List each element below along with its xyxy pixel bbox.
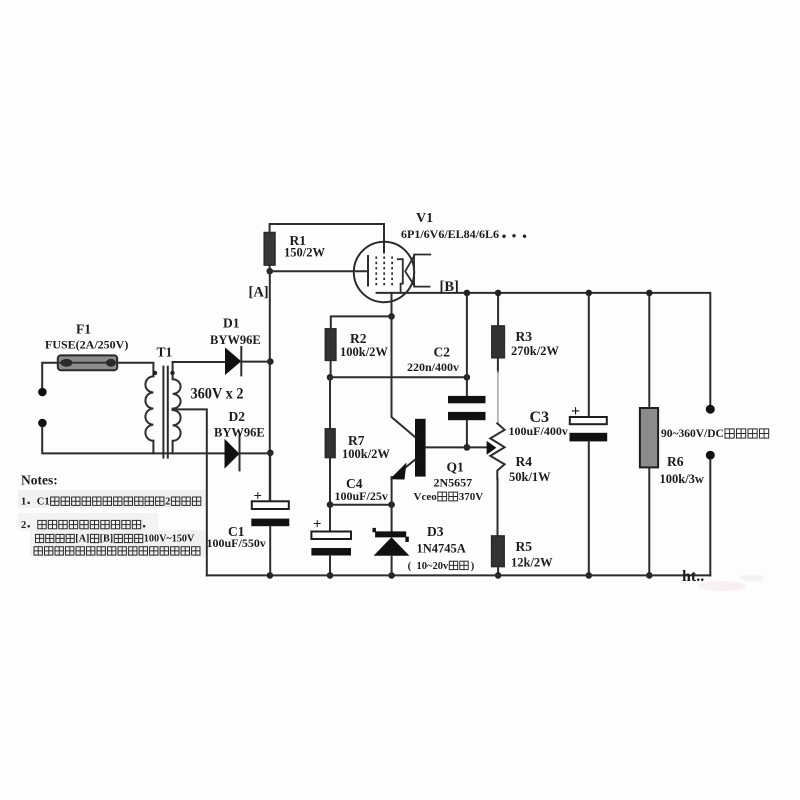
svg-text:10~20v: 10~20v bbox=[417, 561, 449, 572]
svg-text:R5: R5 bbox=[516, 539, 533, 554]
svg-text:100k/3w: 100k/3w bbox=[660, 472, 704, 486]
svg-text:50k/1W: 50k/1W bbox=[509, 470, 551, 484]
resistor R6 bbox=[648, 293, 650, 408]
wire grid lead to tube bbox=[270, 270, 368, 272]
wire top anode loop bbox=[270, 224, 384, 253]
fuse F1 bbox=[58, 355, 117, 370]
zener D3 bbox=[391, 505, 393, 532]
svg-text:[A]: [A] bbox=[249, 284, 269, 300]
tube cathode bar bbox=[367, 256, 369, 286]
node C4 bottom bbox=[327, 572, 334, 579]
svg-text:100uF/25v: 100uF/25v bbox=[335, 489, 388, 503]
svg-text:1N4745A: 1N4745A bbox=[417, 541, 466, 555]
wire R4 to R5 bbox=[497, 479, 499, 536]
node C4 top bbox=[327, 501, 334, 508]
svg-text:90~360V/DC: 90~360V/DC bbox=[661, 428, 724, 440]
diode D1 bbox=[177, 361, 225, 363]
svg-text:[A]: [A] bbox=[75, 534, 89, 545]
svg-text:+: + bbox=[313, 517, 322, 533]
svg-text:R6: R6 bbox=[667, 454, 684, 469]
transformer T1 primary winding bbox=[145, 376, 153, 440]
node R3 top bbox=[495, 290, 502, 297]
svg-text:150/2W: 150/2W bbox=[284, 245, 325, 259]
svg-text:BYW96E: BYW96E bbox=[214, 425, 265, 439]
phasing dot primary bbox=[153, 371, 157, 375]
wire emitter row bbox=[330, 504, 392, 506]
node C3 bottom bbox=[586, 572, 593, 579]
svg-text:2N5657: 2N5657 bbox=[434, 475, 473, 489]
svg-text:12k/2W: 12k/2W bbox=[511, 555, 553, 569]
svg-text:270k/2W: 270k/2W bbox=[511, 344, 559, 358]
svg-text:100V~150V: 100V~150V bbox=[144, 534, 195, 545]
svg-text:[B]: [B] bbox=[100, 534, 114, 545]
node C3 top bbox=[586, 290, 593, 297]
phasing dot secondary bbox=[170, 371, 174, 375]
svg-text:100uF/550v: 100uF/550v bbox=[207, 536, 266, 550]
wire branch to C2 bbox=[330, 376, 467, 378]
node emitter junction bbox=[388, 501, 395, 508]
svg-text:(: ( bbox=[408, 561, 412, 572]
svg-text:370V: 370V bbox=[459, 491, 484, 503]
diode D2 bbox=[173, 452, 225, 454]
capacitor C3 bbox=[588, 293, 590, 417]
svg-text:D1: D1 bbox=[223, 316, 240, 331]
label V1 ellipsis dots bbox=[502, 235, 505, 238]
svg-text:Notes:: Notes: bbox=[21, 472, 58, 487]
wire R2 top bbox=[331, 316, 392, 328]
wire cathode drop from tube bbox=[391, 293, 393, 317]
node R5 bottom bbox=[495, 572, 502, 579]
svg-text:C2: C2 bbox=[434, 345, 451, 360]
svg-text:[B]: [B] bbox=[440, 279, 459, 295]
wire secondary top to D1 bbox=[173, 361, 177, 363]
wire Q1 base lead bbox=[426, 446, 487, 448]
node at R1 bottom bbox=[267, 268, 274, 275]
svg-text:2: 2 bbox=[165, 497, 170, 508]
svg-text:220n/400v: 220n/400v bbox=[407, 360, 459, 374]
wire AC lower to bottom bbox=[42, 427, 172, 453]
svg-text:Q1: Q1 bbox=[447, 459, 465, 474]
svg-text:D3: D3 bbox=[427, 524, 444, 539]
resistor R5 bbox=[492, 536, 505, 567]
node R6 top bbox=[646, 290, 653, 297]
tube V1 envelope bbox=[354, 242, 414, 302]
node tube cathode junction bbox=[388, 313, 395, 320]
svg-text:R4: R4 bbox=[516, 454, 533, 469]
wire [B] rail bbox=[377, 293, 711, 405]
svg-text:T1: T1 bbox=[157, 345, 173, 360]
svg-text:C1: C1 bbox=[37, 497, 50, 508]
wire bottom rail bbox=[207, 574, 711, 576]
tube right bracket and chevron bbox=[414, 255, 430, 287]
wire [A] rail bbox=[269, 271, 271, 501]
svg-text:R7: R7 bbox=[348, 433, 365, 448]
transistor Q1 bbox=[415, 419, 426, 477]
svg-text:ht..: ht.. bbox=[682, 568, 704, 585]
transformer secondary winding lower bbox=[173, 410, 181, 453]
svg-text:100uF/400v: 100uF/400v bbox=[509, 424, 568, 438]
output terminal lower bbox=[706, 451, 715, 460]
node R2 bottom bbox=[327, 374, 334, 381]
svg-text:+: + bbox=[254, 489, 263, 505]
node R6 bottom bbox=[646, 572, 653, 579]
terminal AC upper bbox=[38, 388, 47, 397]
node D2 cathode junction bbox=[267, 450, 274, 457]
node D3 bottom bbox=[388, 572, 395, 579]
svg-text:1: 1 bbox=[21, 497, 26, 508]
capacitor C2 bbox=[466, 293, 468, 396]
resistor R7 bbox=[325, 429, 335, 458]
node on C2 lead bbox=[464, 374, 471, 381]
svg-text:100k/2W: 100k/2W bbox=[342, 447, 390, 461]
capacitor C1 bbox=[269, 453, 271, 502]
potentiometer R4 zigzag bbox=[490, 423, 504, 478]
transformer secondary winding upper bbox=[173, 362, 181, 409]
svg-text:V1: V1 bbox=[416, 211, 433, 226]
svg-text:D2: D2 bbox=[229, 409, 246, 424]
wire fuse left bbox=[42, 363, 58, 388]
svg-text:FUSE(2A/250V): FUSE(2A/250V) bbox=[45, 337, 128, 351]
node D1 cathode junction bbox=[267, 358, 274, 365]
resistor R2 bbox=[325, 329, 336, 361]
svg-text:F1: F1 bbox=[76, 322, 91, 337]
wire lower terminal to rail bbox=[709, 460, 711, 576]
capacitor C4 bbox=[329, 505, 331, 532]
svg-text:6P1/6V6/EL84/6L6: 6P1/6V6/EL84/6L6 bbox=[401, 227, 499, 241]
node C2 top on rail bbox=[464, 290, 471, 297]
transformer core bbox=[162, 367, 164, 458]
resistor R3 bbox=[497, 293, 499, 326]
node Q1 base bbox=[464, 444, 471, 451]
terminal AC lower bbox=[38, 419, 47, 428]
tube screen lead from top bbox=[383, 224, 385, 253]
svg-text:360V x 2: 360V x 2 bbox=[191, 386, 244, 403]
node C1 bottom bbox=[267, 572, 274, 579]
svg-text:+: + bbox=[571, 403, 580, 420]
svg-text:R3: R3 bbox=[516, 329, 533, 344]
svg-text:BYW96E: BYW96E bbox=[210, 333, 261, 347]
output terminal upper bbox=[706, 405, 715, 414]
svg-text:): ) bbox=[471, 561, 475, 572]
faint watermark wash behind notes bbox=[18, 490, 206, 508]
wire fuse to primary bbox=[117, 363, 153, 377]
svg-text:Vceo: Vceo bbox=[414, 491, 438, 503]
resistor R1 bbox=[264, 233, 275, 266]
tube grid dot columns bbox=[376, 257, 392, 287]
tube plate bracket bbox=[398, 259, 403, 293]
wire center tap bbox=[173, 409, 207, 575]
wire R7 link bbox=[329, 377, 331, 429]
wire R3 to R4 (faded) bbox=[497, 358, 499, 372]
note line 4 bbox=[34, 547, 42, 555]
svg-text:100k/2W: 100k/2W bbox=[340, 345, 388, 359]
potentiometer wiper arrow bbox=[487, 442, 495, 454]
svg-text:R2: R2 bbox=[350, 331, 367, 346]
svg-text:2: 2 bbox=[21, 520, 26, 531]
